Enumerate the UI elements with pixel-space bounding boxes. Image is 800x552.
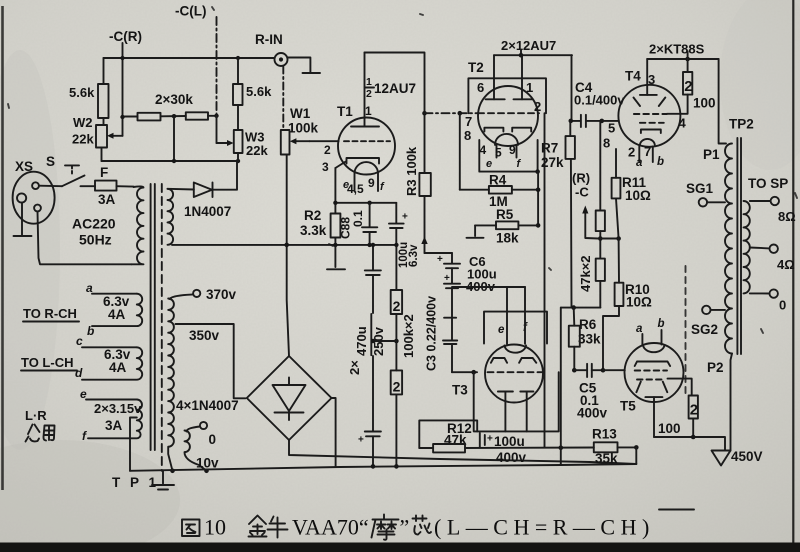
node bus-5.6k junction [236,56,240,60]
wire jack to ground [288,58,311,73]
winding 10v section [185,431,207,471]
svg-text:3.3k: 3.3k [300,223,327,238]
node 100k mid tap [394,339,399,344]
resistor 100k x2 upper [395,245,397,290]
caption side dash [659,509,694,511]
svg-text:TO SP: TO SP [748,176,788,191]
svg-text:2: 2 [366,88,372,100]
svg-text:”: ” [400,515,410,540]
wire T2 plate bus [520,50,522,55]
wiper W2 arrow [110,135,123,137]
tube T2 [478,86,538,146]
svg-text:c: c [76,334,83,348]
terminal 8 ohm [750,200,771,202]
wire bus to P1 [719,59,726,144]
heater leads T5 [641,334,643,345]
cathodes T3 [498,391,534,393]
svg-text:22k: 22k [246,143,268,158]
svg-text:T5: T5 [620,399,636,414]
svg-text:R13: R13 [592,427,617,442]
wire lower bias bus [102,160,239,162]
svg-text:+: + [437,254,443,265]
diode 1N4007 [168,188,194,191]
svg-text:4Ω: 4Ω [777,257,795,272]
svg-text:e: e [486,158,492,170]
wire T2 plate2 long drop [544,113,546,447]
svg-text:2×12AU7: 2×12AU7 [501,38,556,53]
wire -C(R) drop [122,43,124,58]
caption char 金 [249,516,267,537]
svg-text:-C: -C [575,185,589,200]
svg-text:47k×2: 47k×2 [578,255,593,292]
transformer TR1 HV winding [168,299,174,471]
svg-text:R2: R2 [304,208,321,223]
svg-text:0.1/400v: 0.1/400v [574,93,625,108]
svg-text:2: 2 [393,298,401,314]
wire T3 right drop [560,308,562,465]
node 30k left [120,115,124,119]
svg-text:d: d [75,366,83,380]
heater T4 [640,139,655,145]
svg-text:a: a [636,157,643,169]
wire mid 30k to lower bus [173,116,175,161]
svg-text:(L—CH=R—CH): (L—CH=R—CH) [434,515,655,540]
ground R2 rail [334,245,336,267]
transformer TP2 core [736,138,738,354]
svg-text:b: b [87,324,94,338]
ground at XS [21,203,23,236]
svg-text:VAA70“: VAA70“ [292,515,369,540]
svg-text:+: + [358,435,364,446]
svg-text:7: 7 [644,144,651,159]
svg-text:10Ω: 10Ω [626,295,652,310]
svg-text:2: 2 [393,378,401,394]
wiper W3 arrow [216,116,218,143]
svg-text:22k: 22k [72,132,94,147]
wire bottom bus left [130,464,636,471]
svg-text:350v: 350v [189,328,220,343]
wire cathode bus to 450V [654,437,725,451]
terminal 4 ohm [750,247,770,250]
resistor R12 47k [419,420,477,448]
svg-text:47k: 47k [444,433,467,448]
svg-text:(R): (R) [572,171,590,186]
svg-text:T1: T1 [337,104,353,119]
grid T3 dashed [488,371,544,373]
node 30k right [214,114,218,118]
wire cathode rail [335,202,396,204]
svg-text:SG1: SG1 [686,181,714,196]
resistor 100k x2 lower [391,370,402,394]
svg-text:4A: 4A [109,360,127,375]
svg-text:-C(R): -C(R) [109,29,142,44]
svg-text:10Ω: 10Ω [625,188,651,203]
heater leads T3 [506,312,508,344]
svg-text:TP2: TP2 [729,117,754,132]
svg-text:2: 2 [690,402,698,419]
anodes T3 [491,358,536,363]
terminal 370v [193,290,200,297]
svg-text:2×3.15v: 2×3.15v [94,401,142,416]
svg-text:470u: 470u [354,326,369,356]
capacitor 100u 400v cathode [479,433,481,447]
transformer TR1 primary winding [132,186,144,264]
wire XS pin to primary return [38,211,132,264]
svg-text:400v: 400v [496,450,527,465]
svg-text:TO R-CH: TO R-CH [23,306,77,321]
wire T2 cathode to R5 [537,172,539,226]
svg-text:SG2: SG2 [691,322,718,337]
box T3 lower [474,372,559,431]
resistor 47k x2 lower [596,259,605,281]
wire P2 bottom drop [731,354,733,451]
tube T4 [618,85,680,147]
tap 350v [176,324,246,398]
heater T2 [495,134,518,158]
svg-text:R5: R5 [496,207,514,222]
heater dome T3 [505,346,527,353]
transformer TP2 primary [725,144,732,354]
anode T1 [364,53,366,127]
transformer TR1 bias winding [168,189,174,245]
svg-text:W1: W1 [290,106,311,121]
capacitor C5 0.1 400v [574,369,587,371]
svg-text:2×KT88S: 2×KT88S [649,42,705,57]
svg-text:2: 2 [628,145,635,160]
marker 450V triangle [712,451,731,466]
svg-text:T P 1: T P 1 [112,475,159,490]
svg-text:33k: 33k [578,332,601,347]
left scan border [1,6,4,490]
wire jack down dashed [282,67,284,130]
wire top bus [104,57,275,59]
cathode T1 [335,158,379,168]
wire heater rail T3 [452,286,525,288]
svg-text:3: 3 [322,160,329,174]
node R3 top grid line [422,111,427,116]
svg-text:8: 8 [603,136,610,151]
capacitor stack 100u400v C6 [451,253,453,264]
box T3 heater [484,312,547,344]
box T2 lower [479,140,537,172]
svg-text:1: 1 [366,76,372,88]
svg-text:T2: T2 [468,60,484,75]
terminal 0 tap [200,422,207,429]
right scan border [792,0,794,543]
wire divider node [561,307,600,309]
cathode T5 [645,396,662,398]
svg-text:100: 100 [658,421,681,436]
svg-text:100k×2: 100k×2 [401,314,416,358]
feedback arrow (R)-C [585,212,598,239]
wire B+ rail [172,244,396,246]
node bus-W2 junction [120,56,124,60]
caption char 摩 [372,515,399,540]
svg-text:9: 9 [509,143,516,157]
anode T4 [646,59,648,95]
grids T5 dashed [635,370,667,372]
wire T3 grid entry [452,371,477,373]
node R12 bus [559,445,564,450]
svg-text:F: F [100,165,108,180]
wire T1 plate top bus [365,53,425,114]
svg-text:0: 0 [779,298,786,313]
svg-text:6.3v: 6.3v [408,244,420,267]
svg-text:450V: 450V [731,449,763,464]
caption char 牛 [268,517,288,538]
terminal SG2 [702,306,710,314]
svg-text:5.6k: 5.6k [69,85,95,100]
svg-text:0.1: 0.1 [351,210,365,227]
transformer TP2 secondary [744,201,750,293]
winding tap bracket [130,418,137,471]
svg-text:P2: P2 [707,360,724,375]
bottom black band [0,543,800,552]
svg-text:+: + [487,434,493,445]
svg-text:b: b [657,156,664,168]
svg-text:400v: 400v [577,406,608,421]
capacitor 470u 250v pair [372,245,374,270]
svg-text:7: 7 [465,114,472,129]
node 10v tap bottom [204,469,209,474]
svg-text:4: 4 [480,143,487,157]
resistor 100 screen T5 [689,396,698,419]
wire W1 plus B rail to bridge top [287,155,289,357]
cathode T4 [641,130,661,134]
svg-text:6: 6 [477,80,484,95]
node 30k mid [172,114,176,118]
heater dome T5 [643,345,665,352]
node rail-bridge [284,243,289,248]
terminal 0 [750,292,770,294]
screen T5 wire [668,379,692,396]
ground at R-IN [303,72,321,74]
beam plates T5 [636,382,667,393]
svg-text:4×1N4007: 4×1N4007 [176,398,239,413]
anodes T2 [486,98,505,100]
grids T4 dashed [634,113,667,115]
svg-text:W2: W2 [73,115,93,130]
bridge rectifier diamond [247,356,332,440]
wire grid node to R4 [459,113,461,190]
svg-text:T4: T4 [625,69,641,84]
pin leads a b T4 [638,146,640,162]
svg-text:+: + [444,273,450,284]
node HV winding bottom [170,469,175,474]
svg-text:R3 100k: R3 100k [404,146,419,196]
svg-text:370v: 370v [206,287,237,302]
svg-text:3A: 3A [105,418,123,433]
capacitor 0.1 [369,203,371,227]
wire bridge right to bus [332,398,336,467]
svg-text:18k: 18k [496,231,519,246]
svg-text:4,5: 4,5 [347,182,364,196]
svg-text:C3 0.22/400v: C3 0.22/400v [425,296,439,371]
svg-text:8: 8 [464,128,471,143]
svg-text:TO L-CH: TO L-CH [21,355,73,370]
svg-text:R6: R6 [579,317,597,332]
bridge inner diode [273,378,306,421]
svg-text:e: e [498,324,505,336]
wire R3 down with arrow [424,196,426,253]
beam plates T4 [634,98,666,107]
wire bridge bottom to lower rail [289,440,636,464]
heater T1 [355,162,379,191]
svg-text:5.6k: 5.6k [246,84,272,99]
svg-text:1N4007: 1N4007 [184,204,231,219]
capacitor 100u 6.3v [395,203,397,224]
caption figure label 图 [182,520,200,537]
svg-text:8Ω: 8Ω [778,209,796,224]
svg-text:5: 5 [608,121,615,136]
ground R5 [474,225,476,236]
svg-text:35k: 35k [595,451,618,466]
svg-text:+: + [402,212,408,223]
svg-text:T3: T3 [452,383,468,398]
svg-text:2: 2 [684,78,692,95]
svg-text:10: 10 [204,515,226,540]
svg-text:3A: 3A [98,192,116,207]
capacitor C3 0.22/400v [451,288,453,317]
grid T2 dash-dot [425,112,478,114]
wire 47k to R11 link [600,238,618,240]
svg-text:2×: 2× [347,360,362,375]
svg-text:10v: 10v [196,456,219,471]
svg-text:50Hz: 50Hz [79,232,112,248]
svg-text:b: b [658,318,665,330]
svg-text:12AU7: 12AU7 [374,81,416,96]
svg-text:5: 5 [495,146,502,160]
cathodes T2 [484,128,531,132]
resistor 47k x2 upper [599,122,601,211]
ground TP1 [162,471,164,484]
wire -C(L) dash-dot drop [216,17,218,116]
resistor 100 screen T4 [687,59,689,72]
svg-text:1: 1 [365,104,372,118]
svg-text:AC220: AC220 [72,216,116,232]
dashed channel link [685,266,687,393]
svg-text:P1: P1 [703,147,720,162]
svg-text:4: 4 [679,116,687,131]
grid T1 dashed [344,140,390,142]
svg-text:9: 9 [368,176,375,190]
svg-text:R-IN: R-IN [255,32,283,47]
svg-text:0: 0 [209,432,217,447]
svg-text:100k: 100k [288,121,319,136]
box T2 upper [468,78,546,113]
wire R7 down to divider [570,159,573,308]
svg-text:2×30k: 2×30k [155,92,193,107]
transformer TR1 core [150,184,152,450]
svg-text:S: S [46,154,55,169]
svg-text:100u: 100u [494,434,525,449]
svg-text:100: 100 [693,96,716,111]
svg-text:L·R: L·R [25,408,47,423]
anode T5 [635,362,670,367]
svg-text:4A: 4A [108,307,126,322]
wire T4 plate bus [687,52,689,60]
svg-text:-C(L): -C(L) [175,4,206,19]
svg-text:2: 2 [324,143,331,157]
speck marks [8,7,797,333]
